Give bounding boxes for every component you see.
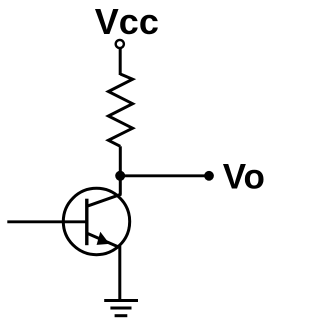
emitter arrow head: [97, 232, 110, 245]
wire Vcc terminal to resistor: [119, 49, 122, 76]
svg-text:Vcc: Vcc: [95, 1, 159, 42]
emitter diagonal: [87, 233, 121, 248]
collector diagonal: [87, 194, 121, 206]
wire emitter to ground: [118, 246, 121, 301]
wire resistor to collector bend: [119, 146, 122, 195]
transistor Q1 body circle: [63, 188, 129, 254]
wire junction to Vo terminal: [120, 174, 209, 177]
transistor base bar: [85, 199, 88, 246]
ground symbol bar 1: [104, 299, 138, 302]
junction node (collector / output): [115, 171, 125, 181]
Vo terminal dot: [204, 171, 214, 181]
Vcc terminal (open circle): [116, 40, 124, 48]
resistor R1 (zigzag): [108, 74, 132, 146]
svg-text:Vo: Vo: [223, 157, 265, 196]
ground symbol bar 2: [110, 307, 131, 310]
ground symbol bar 3: [115, 314, 128, 317]
base wire: [7, 220, 86, 223]
